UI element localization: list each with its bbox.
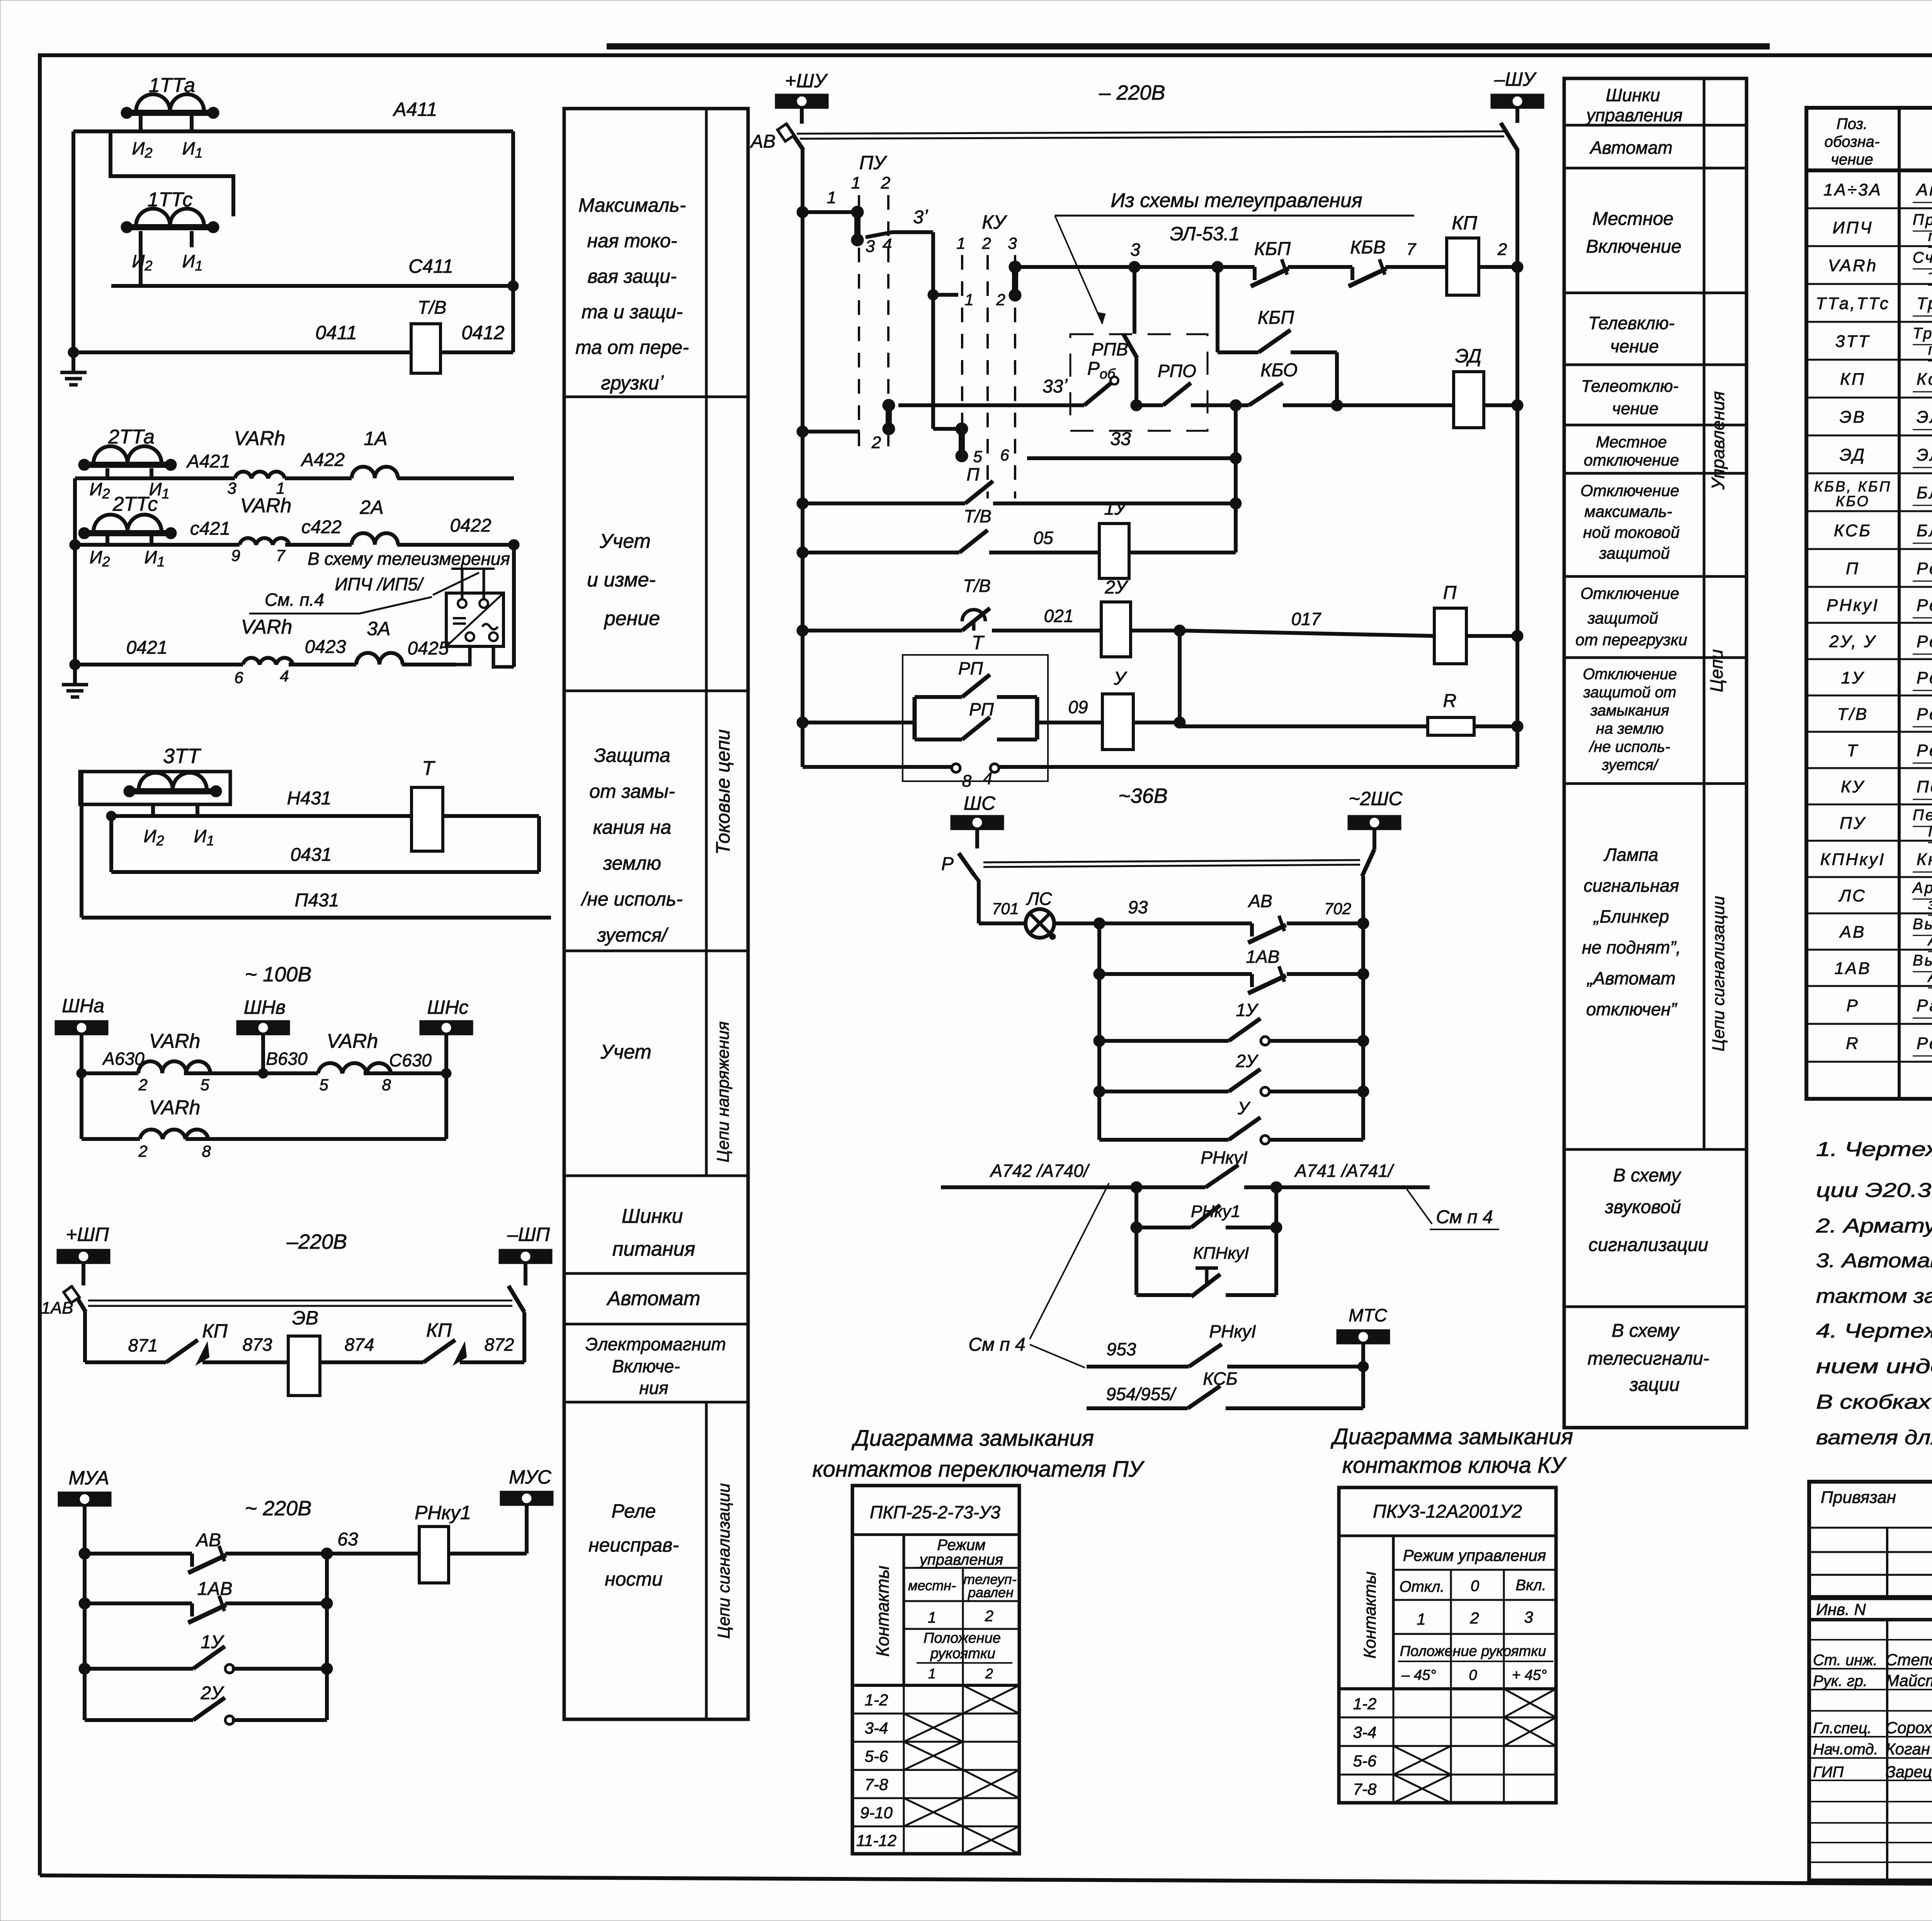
svg-text:5-6: 5-6 — [1353, 1752, 1377, 1770]
contact РНку1 blinker — [1136, 1147, 1282, 1193]
svg-text:701: 701 — [992, 899, 1019, 918]
svg-text:Реле указательное РУ-21/0,5,: Реле указательное РУ-21/0,5, 0,5А — [1917, 668, 1932, 687]
ladder contact 1У — [1094, 1000, 1369, 1047]
wire 953 with РНку1 contact — [1087, 1321, 1369, 1372]
wire 0412 — [440, 286, 513, 352]
svg-text:РПО: РПО — [1158, 361, 1196, 381]
svg-text:РП: РП — [969, 699, 994, 719]
label ~100В — [245, 963, 312, 986]
svg-text:Включе-: Включе- — [612, 1356, 680, 1376]
row text Отключение макс токовой защитой — [1580, 481, 1680, 562]
svg-text:Поз.: Поз. — [1837, 116, 1868, 133]
vertical label Цепи сигнализации right — [1709, 896, 1728, 1052]
svg-text:максималь-: максималь- — [1584, 502, 1672, 520]
bus terminal -ШП — [499, 1224, 552, 1285]
bus terminal МУС — [500, 1466, 553, 1554]
left control bus vertical — [801, 148, 804, 767]
label -220В control bus — [1099, 81, 1165, 104]
svg-text:ИПЧ: ИПЧ — [1833, 218, 1873, 237]
svg-text:1: 1 — [964, 291, 973, 309]
svg-text:3-4: 3-4 — [865, 1719, 888, 1737]
bus terminal +ШУ — [775, 70, 828, 124]
current relay Т/В — [411, 297, 446, 373]
block contact КБВ — [1349, 237, 1447, 286]
svg-text:954/955/: 954/955/ — [1106, 1384, 1177, 1404]
phase A metering wire А421-А422 — [75, 450, 514, 478]
КУ contact 3 — [1009, 261, 1021, 301]
svg-text:1У: 1У — [1841, 668, 1865, 687]
svg-text:Арматура сигнальной лампы с: Арматура сигнальной лампы с белой лин- — [1912, 879, 1932, 896]
svg-text:2У, У: 2У, У — [1829, 632, 1876, 651]
diagram КУ subheader — [1393, 1546, 1556, 1689]
svg-text:от перегрузки: от перегрузки — [1575, 631, 1687, 649]
intermediate relay П coil — [1434, 583, 1523, 664]
current relay Т — [412, 757, 443, 851]
svg-text:чение: чение — [1610, 336, 1659, 356]
svg-text:с421: с421 — [190, 518, 230, 539]
diagram table КУ frame — [1339, 1487, 1556, 1803]
vertical junction wire x3198 — [1230, 405, 1242, 552]
svg-text:33ʼ: 33ʼ — [1043, 376, 1068, 397]
svg-text:КБО: КБО — [1836, 493, 1870, 510]
wire with contact АВ — [79, 1529, 527, 1573]
bus terminal -ШУ — [1491, 68, 1544, 123]
right control bus vertical — [1515, 148, 1519, 767]
key КУ labels — [956, 211, 1017, 252]
svg-text:МТС: МТС — [1349, 1305, 1387, 1325]
diagram КУ thick line — [1339, 1687, 1556, 1690]
diagram КУ header — [1339, 1501, 1556, 1536]
svg-text:ШС: ШС — [964, 792, 996, 814]
svg-text:0422: 0422 — [450, 515, 492, 536]
svg-text:та и защи-: та и защи- — [582, 301, 683, 323]
svg-text:замыкания: замыкания — [1590, 702, 1669, 719]
svg-text:93: 93 — [1128, 897, 1148, 917]
contact П — [797, 464, 1236, 509]
svg-text:VARh: VARh — [149, 1030, 201, 1052]
svg-text:1: 1 — [928, 1609, 936, 1626]
row text Учет и измерение — [587, 530, 660, 630]
svg-text:та от пере-: та от пере- — [575, 337, 689, 358]
row text В схему телесигнализации — [1588, 1321, 1709, 1395]
callout См п 4 right — [1407, 1189, 1499, 1229]
svg-text:~100В, 5А: ~100В, 5А — [1928, 265, 1932, 282]
svg-text:874: 874 — [345, 1334, 374, 1355]
callout См. п.4 — [249, 590, 432, 614]
branch contact 2У — [85, 1683, 327, 1724]
svg-text:Реле промежуточное РП-25,: Реле промежуточное РП-25, ~220В — [1917, 596, 1932, 615]
svg-text:зуется/: зуется/ — [1602, 756, 1659, 773]
row text Телеотключение — [1581, 377, 1679, 418]
svg-text:А742 /А740/: А742 /А740/ — [989, 1161, 1090, 1181]
svg-text:1АВ: 1АВ — [1246, 947, 1280, 967]
svg-text:Контакты: Контакты — [1361, 1571, 1379, 1659]
closing electromagnet ЭВ — [288, 1307, 320, 1396]
svg-text:017: 017 — [1291, 609, 1321, 629]
svg-text:КПНкуI: КПНкуI — [1193, 1244, 1249, 1263]
svg-text:звуковой: звуковой — [1605, 1197, 1681, 1217]
wire 871 — [85, 1312, 524, 1362]
svg-text:П: П — [966, 464, 980, 484]
wire Н431 — [106, 788, 412, 821]
right column sub divider — [1703, 78, 1706, 1149]
svg-text:Рук. гр.: Рук. гр. — [1813, 1673, 1867, 1690]
bus terminal ШНа — [55, 995, 108, 1073]
svg-text:В скобках дана маркировка: В скобках дана маркировка цепей и измери… — [1816, 1391, 1932, 1413]
wire 09 — [1037, 697, 1102, 722]
svg-text:Электромагнит включения, –: Электромагнит включения, – 220В — [1917, 408, 1932, 427]
VARh coil phase A — [227, 427, 285, 497]
svg-text:Т: Т — [422, 757, 435, 780]
svg-text:~2ШС: ~2ШС — [1349, 788, 1403, 809]
svg-text:Телевклю-: Телевклю- — [1588, 313, 1675, 333]
wire 0411 — [73, 322, 411, 352]
wire 874 — [320, 1334, 423, 1362]
svg-text:последовательности ТЗРЛ: последовательности ТЗРЛ — [1928, 341, 1932, 358]
svg-text:3-4: 3-4 — [1353, 1723, 1377, 1741]
svg-text:2: 2 — [1469, 1609, 1479, 1627]
svg-text:2ТТс: 2ТТс — [112, 493, 158, 515]
svg-text:Включение: Включение — [1586, 236, 1681, 257]
voltage wire А630-В630-С630 — [77, 1049, 451, 1078]
ИПЧ top leads — [451, 569, 495, 599]
current transformer 2ТТс — [78, 493, 177, 539]
svg-text:П: П — [1443, 583, 1457, 603]
left vertical bus of circuit 2 — [70, 478, 80, 670]
zero sequence CT 3ТТ window — [80, 745, 230, 804]
КУ contact 5-6 — [933, 423, 1009, 466]
ПУ contact 2 — [871, 399, 895, 452]
svg-text:ции Э20.367 по цветному ка: ции Э20.367 по цветному каталогу 02.12.2… — [1816, 1179, 1932, 1202]
row text Телевключение — [1588, 313, 1675, 356]
svg-text:РНкуI: РНкуI — [1201, 1147, 1248, 1168]
svg-text:ТТа,ТТс: ТТа,ТТс — [1816, 294, 1890, 313]
svg-text:Лампа: Лампа — [1603, 845, 1658, 865]
svg-text:1У: 1У — [201, 1632, 224, 1652]
svg-text:702: 702 — [1324, 899, 1351, 918]
svg-text:Положение: Положение — [923, 1630, 1001, 1646]
wire step to 1ТТс — [111, 133, 233, 216]
svg-text:зой ЛС-53, ~36В: зой ЛС-53, ~36В — [1928, 896, 1932, 913]
svg-text:Токовые цепи: Токовые цепи — [712, 729, 734, 855]
svg-text:не поднят”,: не поднят”, — [1582, 937, 1681, 957]
svg-text:3: 3 — [866, 237, 875, 256]
svg-text:В схему: В схему — [1612, 1321, 1680, 1341]
svg-text:ПУ: ПУ — [859, 152, 888, 173]
relay Т thin box — [903, 632, 1048, 781]
У row entry wire — [797, 717, 915, 728]
row text Лампа сигнальная — [1582, 845, 1681, 1019]
VARh coil phase C — [231, 495, 291, 564]
svg-text:1: 1 — [956, 234, 965, 252]
svg-text:См п 4: См п 4 — [968, 1334, 1025, 1355]
svg-text:Из схемы телеуправления: Из схемы телеуправления — [1111, 189, 1362, 212]
svg-text:ПКП-25-2-73-У3: ПКП-25-2-73-У3 — [870, 1502, 1000, 1522]
svg-text:См. п.4: См. п.4 — [265, 590, 324, 610]
svg-text:Р: Р — [941, 854, 954, 874]
svg-text:РНку1: РНку1 — [1191, 1202, 1240, 1221]
bus terminal ШНс — [420, 996, 473, 1073]
svg-text:КПНкуI: КПНкуI — [1820, 850, 1886, 869]
svg-text:1: 1 — [851, 173, 861, 192]
wire 017 — [1180, 609, 1434, 636]
svg-text:АВ: АВ — [750, 131, 776, 152]
ladder contact 2У — [1094, 1051, 1369, 1097]
note ИПЧ /ИП5/ — [335, 573, 479, 595]
element list header — [1825, 116, 1932, 168]
svg-text:ПКП-25-2-73-У3: ПКП-25-2-73-У3 — [1928, 823, 1932, 840]
row text Местное отключение — [1584, 433, 1679, 469]
svg-text:Блок-контакты выключателя КС: Блок-контакты выключателя КСА-8 — [1917, 521, 1932, 540]
resistor R — [1180, 691, 1523, 735]
lamp row contact АВ — [1099, 891, 1369, 943]
svg-text:„Автомат: „Автомат — [1587, 968, 1675, 988]
svg-text:Амперметр Э-8021, 0 ÷ А: Амперметр Э-8021, 0 ÷ А — [1915, 180, 1932, 199]
svg-text:У: У — [1114, 668, 1128, 689]
svg-text:2: 2 — [985, 1608, 993, 1625]
svg-text:управления: управления — [918, 1551, 1003, 1568]
svg-text:зуется/: зуется/ — [597, 924, 669, 946]
svg-text:КБВ, КБП: КБВ, КБП — [1814, 479, 1891, 495]
svg-text:2: 2 — [881, 173, 890, 192]
svg-text:КБВ: КБВ — [1350, 237, 1386, 258]
svg-text:АП50-2МТ, Урасц = 16А, БК: АП50-2МТ, Урасц = 16А, БК. 2з +2р — [1927, 968, 1932, 985]
left column sub divider — [705, 109, 708, 1719]
svg-text:ЛС: ЛС — [1838, 886, 1866, 905]
svg-text:Трансформатор тока нулевой: Трансформатор тока нулевой — [1913, 325, 1932, 342]
counter coil 2А — [352, 496, 398, 545]
svg-text:АП50-2М, Урасц = 4А, БК:: АП50-2М, Урасц = 4А, БК: 2з+2р — [1927, 932, 1932, 949]
svg-text:вателя для КУ2.: вателя для КУ2. — [1816, 1426, 1932, 1449]
current transformer 2ТТа — [78, 426, 177, 471]
svg-text:чение: чение — [1612, 399, 1658, 418]
svg-text:4: 4 — [883, 235, 892, 254]
svg-text:2: 2 — [1497, 240, 1507, 259]
svg-text:Диаграмма замыкания: Диаграмма замыкания — [1330, 1424, 1573, 1449]
svg-text:„Блинкер: „Блинкер — [1593, 906, 1669, 926]
diagram ПУ subheader — [904, 1537, 1019, 1685]
vertical link 2У-У rows — [1178, 631, 1182, 726]
svg-text:КУ: КУ — [1841, 777, 1865, 796]
labels И2 И1 of 2ТТа — [90, 479, 170, 501]
wire 3 row — [1015, 240, 1223, 273]
signal ladder buses — [1099, 923, 1363, 1140]
ground of circuit 2 — [62, 665, 88, 697]
svg-text:КБП: КБП — [1254, 239, 1291, 259]
breaker АВ blade right — [1501, 123, 1517, 150]
diagram title КУ — [1330, 1424, 1573, 1478]
svg-text:В630: В630 — [266, 1049, 308, 1069]
row text Максимальная токовая защита — [575, 194, 689, 394]
svg-text:0: 0 — [1469, 1667, 1477, 1683]
svg-text:VARh: VARh — [241, 616, 293, 638]
svg-text:В схему: В схему — [1613, 1165, 1682, 1186]
svg-text:1АВ: 1АВ — [1834, 959, 1871, 978]
svg-text:ной токовой: ной токовой — [1583, 523, 1680, 541]
breaker АВ blade left — [750, 124, 803, 152]
svg-text:Зарецкий: Зарецкий — [1886, 1763, 1932, 1781]
svg-text:Переключатель ПКУ3-12 А2001У2: Переключатель ПКУ3-12 А2001У2 — [1917, 777, 1932, 796]
svg-text:Цепи сигнализации: Цепи сигнализации — [1709, 896, 1728, 1052]
ladder contact 1АВ — [1094, 947, 1369, 993]
mechanical link double wire — [88, 1300, 512, 1306]
svg-text:3: 3 — [1524, 1608, 1533, 1626]
svg-text:872: 872 — [485, 1334, 514, 1355]
svg-text:2У: 2У — [200, 1683, 224, 1703]
diagram ПУ header — [852, 1502, 1019, 1535]
ammeter coil 1А — [352, 428, 398, 478]
svg-text:Р: Р — [1846, 996, 1859, 1015]
row text Отключение защитой от перегрузки — [1575, 584, 1687, 649]
svg-text:ПУ: ПУ — [1840, 814, 1866, 833]
vertical label Управления — [1708, 391, 1728, 490]
wire А741 /А741/ — [1276, 1161, 1430, 1187]
svg-text:КП: КП — [1840, 370, 1866, 389]
svg-text:1-2: 1-2 — [865, 1691, 888, 1709]
svg-text:Сорохавский: Сорохавский — [1886, 1719, 1932, 1737]
vertical wire from 3 prime — [931, 232, 935, 429]
svg-text:У: У — [1237, 1098, 1251, 1118]
svg-text:Блок-контакты привода: Блок-контакты привода — [1917, 483, 1932, 502]
svg-text:Контактор , – 220В: Контактор , – 220В — [1917, 370, 1932, 389]
svg-text:0412: 0412 — [461, 322, 504, 343]
svg-text:Т: Т — [1847, 741, 1859, 760]
svg-text:1: 1 — [928, 1666, 936, 1681]
svg-text:3: 3 — [227, 479, 236, 497]
svg-text:ГИП: ГИП — [1813, 1764, 1844, 1781]
label И2 И1 of 1ТТа — [132, 138, 203, 161]
wire А742 /А740/ — [941, 1161, 1142, 1193]
svg-text:землю: землю — [603, 852, 661, 874]
svg-text:отключение: отключение — [1584, 451, 1679, 469]
svg-text:вая защи-: вая защи- — [588, 265, 677, 287]
svg-text:КУ: КУ — [982, 211, 1007, 233]
svg-text:местн-: местн- — [908, 1578, 956, 1593]
РНку1 self-hold branch — [1131, 1187, 1282, 1233]
svg-text:РНкуI: РНкуI — [1827, 596, 1879, 615]
svg-text:от замы-: от замы- — [589, 780, 675, 802]
svg-text:–ШП: –ШП — [507, 1224, 550, 1245]
svg-text:2У: 2У — [1236, 1051, 1259, 1071]
branch contact 1АВ — [79, 1579, 333, 1623]
right function column frame — [1564, 78, 1747, 1428]
svg-text:управления: управления — [1585, 105, 1683, 125]
svg-text:–220В: –220В — [286, 1230, 347, 1253]
svg-text:7-8: 7-8 — [1353, 1780, 1377, 1798]
bus tap to ПУ 2 — [797, 426, 860, 437]
wire 33 — [1027, 429, 1236, 458]
current transformer 1ТТс — [121, 189, 219, 233]
contact Т/В with latch row 021 — [797, 576, 1101, 636]
svg-text:Майстровая: Майстровая — [1886, 1671, 1932, 1690]
svg-text:зации: зации — [1629, 1375, 1679, 1395]
svg-text:Нач.отд.: Нач.отд. — [1813, 1741, 1878, 1758]
svg-text:АВ: АВ — [1247, 891, 1272, 911]
svg-text:Трансформатор тока ТПЛ 10-0: Трансформатор тока ТПЛ 10-0,5/Р, /5А — [1917, 294, 1932, 313]
svg-text:Откл.: Откл. — [1400, 1578, 1445, 1595]
label -220В — [286, 1230, 347, 1253]
svg-text:Привязан: Привязан — [1821, 1488, 1896, 1507]
row text Реле неисправности — [588, 1500, 679, 1590]
svg-text:Резистор ПЭ-50-2, 7000 О: Резистор ПЭ-50-2, 7000 Ом — [1917, 1034, 1932, 1053]
measuring transducer ИПЧ box — [446, 593, 503, 646]
svg-text:63: 63 — [337, 1529, 358, 1550]
svg-text:РНкуI: РНкуI — [1209, 1321, 1256, 1341]
labels И2 И1 of 2ТТс — [90, 547, 165, 569]
svg-text:В схему телеизмерения: В схему телеизмерения — [308, 549, 510, 569]
svg-text:Коган: Коган — [1886, 1740, 1930, 1758]
label ~36В — [1118, 784, 1168, 807]
row text В схему звуковой сигнализации — [1588, 1165, 1708, 1255]
svg-text:С630: С630 — [389, 1050, 432, 1070]
svg-text:Реле указательное РУ-21/0,0: Реле указательное РУ-21/0,05, 0,05А — [1917, 632, 1932, 651]
svg-text:Гл.спец.: Гл.спец. — [1813, 1720, 1872, 1737]
svg-text:защитой: защитой — [1599, 544, 1670, 562]
svg-text:См п 4: См п 4 — [1436, 1207, 1493, 1227]
svg-text:VARh: VARh — [1828, 256, 1878, 275]
svg-text:8: 8 — [202, 1142, 211, 1160]
svg-text:8: 8 — [962, 772, 972, 790]
svg-text:Максималь-: Максималь- — [578, 194, 686, 216]
row text Автомат right — [1589, 138, 1673, 158]
svg-text:ЭВ: ЭВ — [292, 1307, 318, 1329]
signature table Привязан — [1809, 1482, 1932, 1880]
svg-text:3А: 3А — [367, 618, 390, 639]
svg-text:Отключение: Отключение — [1580, 481, 1679, 500]
svg-text:ЭД: ЭД — [1840, 445, 1866, 464]
svg-text:нием индекса „1” у реле РНк: нием индекса „1” у реле РНкуI и кнопки К… — [1816, 1355, 1932, 1378]
row text Шинки питания — [612, 1205, 696, 1260]
svg-text:3ТТ: 3ТТ — [1835, 332, 1870, 351]
svg-text:и изме-: и изме- — [587, 569, 656, 591]
svg-text:КБП: КБП — [1258, 308, 1294, 328]
diagram ПУ contacts column — [872, 1535, 904, 1685]
svg-text:2У: 2У — [1104, 577, 1129, 598]
svg-text:VARh: VARh — [327, 1030, 378, 1052]
telecontrol wire 8-4 — [803, 764, 1517, 790]
row text Защита от замыкания — [580, 745, 682, 946]
svg-text:+ШП: +ШП — [66, 1224, 109, 1245]
disconnect Р blade — [941, 853, 979, 923]
svg-text:Отключение: Отключение — [1580, 584, 1679, 602]
tripping electromagnet ЭД — [1454, 345, 1523, 428]
РП parallel contacts — [915, 658, 1037, 739]
svg-text:Т/В: Т/В — [963, 576, 991, 596]
svg-text:Цепи напряжения: Цепи напряжения — [714, 1021, 733, 1162]
svg-text:ЭД: ЭД — [1455, 345, 1481, 367]
svg-text:9-10: 9-10 — [860, 1804, 893, 1822]
svg-text:АВ: АВ — [1839, 923, 1866, 942]
svg-text:3ʼ: 3ʼ — [913, 207, 928, 228]
wire 3 prime — [866, 207, 933, 237]
wire 701 and lamp ЛС — [979, 889, 1148, 940]
svg-text:+ШУ: +ШУ — [785, 70, 828, 92]
bus terminal МУА — [58, 1467, 111, 1554]
svg-text:Реле тока РТ3-50: Реле тока РТ3-50 — [1917, 741, 1932, 760]
svg-text:отключен”: отключен” — [1586, 999, 1678, 1019]
svg-text:Разъединитель РН1-40-2: Разъединитель РН1-40-2 — [1917, 996, 1932, 1015]
svg-text:VARh: VARh — [234, 427, 286, 450]
vertical label Цепи — [1706, 649, 1726, 692]
svg-text:ИПЧ /ИП5/: ИПЧ /ИП5/ — [335, 574, 424, 594]
svg-text:сигнализации: сигнализации — [1588, 1235, 1708, 1255]
svg-text:2: 2 — [138, 1142, 147, 1160]
svg-text:контактов ключа КУ: контактов ключа КУ — [1342, 1453, 1567, 1478]
svg-text:Телеотклю-: Телеотклю- — [1581, 377, 1679, 396]
svg-text:1: 1 — [827, 188, 836, 207]
svg-text:КБО: КБО — [1260, 360, 1298, 381]
svg-text:Положение рукоятки: Положение рукоятки — [1400, 1643, 1546, 1659]
